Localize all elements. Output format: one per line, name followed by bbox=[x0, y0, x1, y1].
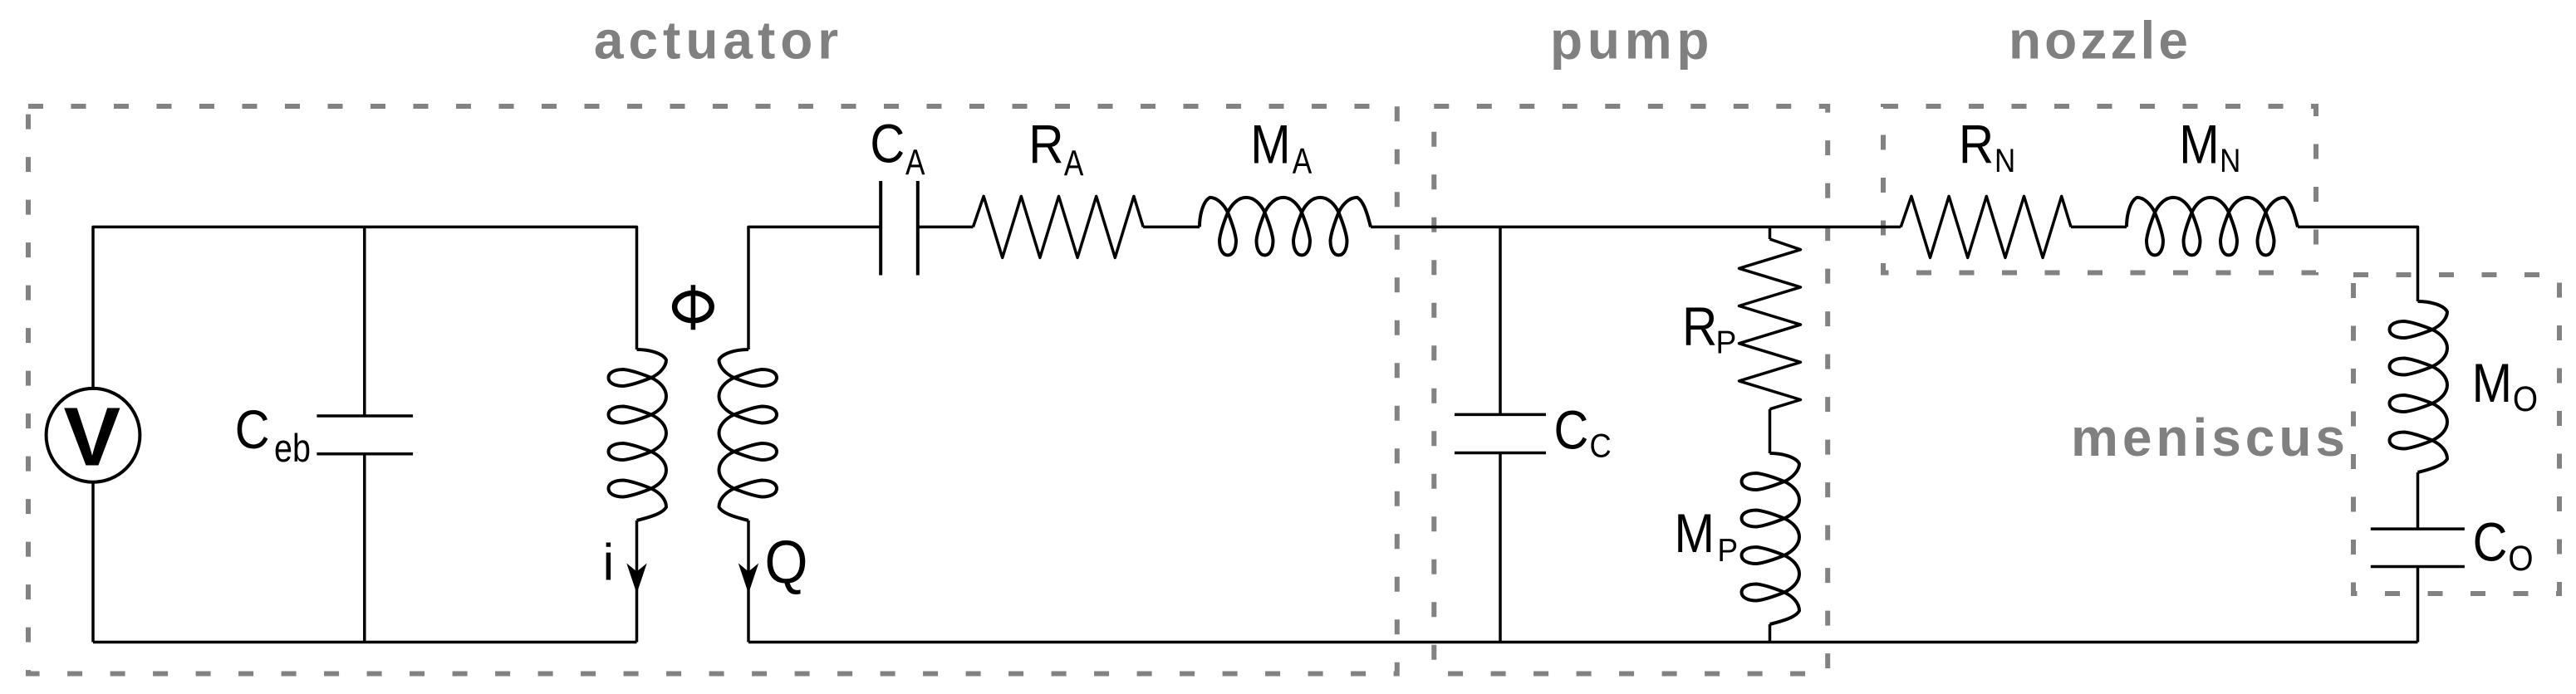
wire: V source bottom to bottom rail bbox=[91, 482, 95, 643]
actuator dashed box bbox=[28, 106, 1397, 674]
svg-text:N: N bbox=[1995, 143, 2015, 179]
svg-text:A: A bbox=[1064, 143, 1084, 183]
svg-text:N: N bbox=[2220, 143, 2240, 179]
wire: bottom rail left bbox=[93, 641, 637, 644]
svg-text:O: O bbox=[2508, 539, 2533, 579]
resistor R_A bbox=[973, 196, 1143, 257]
wire: C_A to R_A bbox=[918, 226, 974, 229]
svg-text:P: P bbox=[1717, 533, 1738, 569]
wire: C_O bottom lead bbox=[2417, 567, 2420, 643]
svg-text:i: i bbox=[603, 535, 615, 592]
svg-text:actuator: actuator bbox=[594, 11, 838, 71]
svg-text:M: M bbox=[1250, 113, 1290, 174]
resistor R_P bbox=[1739, 239, 1801, 409]
wire: M_O to C_O bbox=[2417, 472, 2420, 529]
svg-text:eb: eb bbox=[274, 426, 311, 470]
pump dashed box bbox=[1434, 106, 1828, 674]
svg-text:R: R bbox=[1682, 296, 1717, 357]
inductor M_N bbox=[2127, 198, 2298, 256]
wire: C_eb branch top bbox=[363, 227, 366, 416]
capacitor C_eb plates bbox=[316, 416, 413, 454]
wire: bottom rail right bbox=[748, 641, 2418, 644]
svg-text:C: C bbox=[1590, 428, 1612, 465]
inductor M_A bbox=[1200, 198, 1371, 256]
svg-text:nozzle: nozzle bbox=[2009, 11, 2188, 71]
wire: C_C branch bottom bbox=[1499, 453, 1502, 643]
wire: top-left loop V to transformer primary bbox=[93, 227, 637, 388]
svg-text:M: M bbox=[2179, 113, 2219, 174]
label Phi: ellipse ring bbox=[675, 293, 712, 320]
capacitor C_C plates bbox=[1455, 414, 1546, 452]
wire: C_C branch top bbox=[1499, 227, 1502, 414]
svg-text:C: C bbox=[870, 113, 905, 174]
label Phi: vertical bar bbox=[691, 285, 696, 330]
wire: R_P top lead bbox=[1769, 227, 1772, 239]
wire: R_P to M_P bbox=[1769, 409, 1772, 453]
arrow i on primary bbox=[626, 564, 646, 594]
voltage source V circle bbox=[47, 389, 140, 482]
meniscus dashed box bbox=[2353, 275, 2559, 594]
svg-text:C: C bbox=[235, 398, 270, 460]
wire: M_P bottom lead bbox=[1769, 624, 1772, 643]
wire: secondary bottom lead bbox=[747, 520, 750, 643]
transformer primary coil bbox=[609, 349, 667, 520]
wire: secondary top lead bbox=[748, 227, 881, 349]
svg-text:O: O bbox=[2513, 379, 2538, 419]
svg-text:C: C bbox=[2473, 511, 2508, 573]
transformer secondary coil bbox=[719, 349, 778, 520]
nozzle dashed box bbox=[1883, 106, 2316, 273]
svg-text:R: R bbox=[1028, 113, 1063, 174]
svg-text:C: C bbox=[1554, 398, 1589, 460]
svg-text:A: A bbox=[905, 143, 925, 183]
svg-text:M: M bbox=[1675, 502, 1715, 564]
svg-text:M: M bbox=[2472, 352, 2512, 413]
svg-text:A: A bbox=[1293, 141, 1313, 182]
wire: C_eb branch bottom bbox=[363, 454, 366, 643]
wire: M_A through pump to R_N bbox=[1371, 226, 1901, 229]
wire: M_N right, down to M_O bbox=[2298, 227, 2418, 301]
capacitor C_O plates bbox=[2371, 529, 2465, 566]
resistor R_N bbox=[1901, 196, 2071, 257]
wire: R_N to M_N bbox=[2071, 226, 2127, 229]
capacitor C_A plates bbox=[881, 181, 918, 276]
svg-text:R: R bbox=[1959, 113, 1994, 174]
arrow Q on secondary bbox=[738, 564, 758, 594]
inductor M_O bbox=[2390, 301, 2448, 472]
svg-text:P: P bbox=[1716, 325, 1737, 361]
inductor M_P bbox=[1742, 453, 1800, 624]
wire: primary coil bottom lead bbox=[635, 520, 639, 643]
svg-text:pump: pump bbox=[1550, 11, 1710, 71]
svg-text:V: V bbox=[64, 391, 121, 484]
wire: R_A to M_A bbox=[1143, 226, 1200, 229]
svg-text:Q: Q bbox=[765, 529, 808, 596]
